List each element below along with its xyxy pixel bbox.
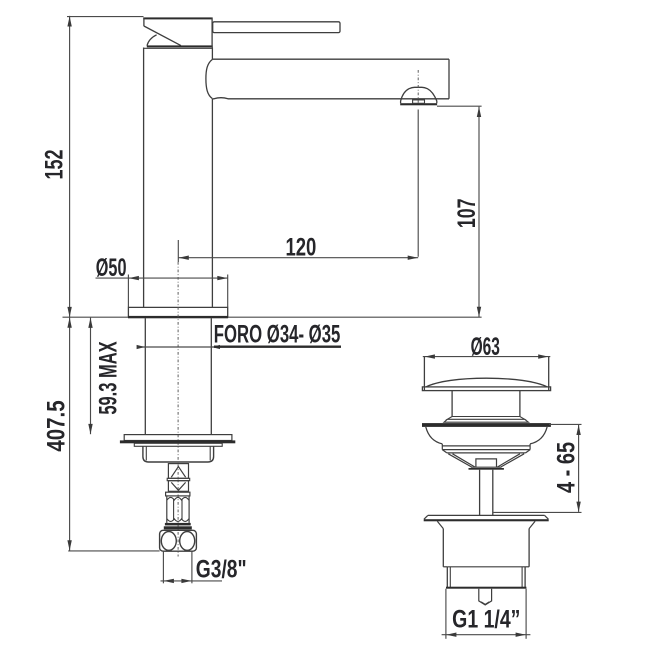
valve A caret xyxy=(171,467,185,478)
braided hose left edge xyxy=(166,496,168,523)
extension stub at faucet center xyxy=(177,240,179,262)
bell band line 3 xyxy=(447,452,526,454)
aerator bottom plate (bold) xyxy=(400,103,437,105)
drain cap dome arc xyxy=(426,378,547,387)
arrow left (Ø63) xyxy=(425,354,435,358)
plug tip cylinder xyxy=(479,589,492,605)
lower flange bevel left xyxy=(424,515,428,519)
arrow right (Ø50) xyxy=(217,276,227,280)
supply nut circle right xyxy=(180,532,195,551)
dimension line G1 1/4 xyxy=(442,634,531,636)
drain bell curve left xyxy=(426,427,443,444)
thread top line xyxy=(447,566,525,568)
bell band line 2 xyxy=(442,449,530,451)
deck extension line left xyxy=(63,316,129,318)
svg-text:59.3 MAX: 59.3 MAX xyxy=(95,341,122,414)
hose end collar (dark) xyxy=(165,523,191,526)
svg-text:107: 107 xyxy=(452,198,481,228)
thread bottom (bold) xyxy=(446,587,526,589)
svg-text:FORO Ø34- Ø35: FORO Ø34- Ø35 xyxy=(214,320,341,348)
extension line top (spout top level) xyxy=(67,16,144,18)
lower flange bold band xyxy=(424,519,549,521)
thread inner left xyxy=(449,567,451,588)
drain rod left xyxy=(479,470,481,516)
spout bottom line xyxy=(213,98,449,99)
main left dimension line (152 / 407.5) xyxy=(69,16,71,551)
barrel right xyxy=(528,529,530,567)
arrow right (G1 1/4) xyxy=(516,633,526,637)
plug tip inner xyxy=(481,602,489,605)
hose end collar 2 (dark) xyxy=(164,526,192,529)
svg-text:G1 1/4”: G1 1/4” xyxy=(452,605,520,633)
braid top scallops xyxy=(167,497,189,500)
thread outer left xyxy=(446,567,448,588)
dimension line G3/8 xyxy=(161,580,223,582)
drain bell curve right xyxy=(530,427,547,444)
aerator dome xyxy=(401,87,437,103)
supply nut block xyxy=(160,530,197,551)
drain top flange (bold band) xyxy=(422,423,551,427)
base flange outline xyxy=(128,307,227,317)
funnel inner right xyxy=(497,454,520,467)
barrel left xyxy=(442,529,444,567)
svg-text:4 - 65: 4 - 65 xyxy=(553,442,581,493)
arrow down at washer (59.3) xyxy=(88,424,92,434)
funnel base bold xyxy=(469,468,504,470)
svg-text:G3/8": G3/8" xyxy=(196,555,247,583)
fixing nut inner facet right xyxy=(209,446,211,460)
arrow left out (G3/8) xyxy=(164,579,174,583)
neck collar flare 1 xyxy=(447,417,524,420)
G1 extension right xyxy=(525,589,527,639)
extension stub flange left xyxy=(127,275,129,308)
drain cap side right / extension xyxy=(548,357,550,391)
handle cap left edge xyxy=(143,18,145,27)
neck collar flare 2 xyxy=(444,419,528,422)
handle cap top (bold) xyxy=(143,17,212,19)
body bevel left xyxy=(437,521,443,528)
drain neck right xyxy=(519,391,521,417)
aerator outlet notch xyxy=(413,100,425,103)
valve B vee xyxy=(171,482,185,490)
barrel ledge left xyxy=(443,566,447,568)
funnel inner left xyxy=(453,454,476,467)
supply nut circle left xyxy=(161,532,176,551)
arrow right (120) xyxy=(408,256,418,260)
arrow toward shank left (FORO) xyxy=(137,345,146,349)
faucet body top edge xyxy=(144,47,213,49)
aerator centerline (dashed) xyxy=(417,70,419,103)
spacer plate xyxy=(134,443,222,446)
handle cap diagonal (lever underside) xyxy=(144,26,181,46)
arrow up at top (152) xyxy=(67,16,71,26)
dimension line FORO xyxy=(138,346,215,348)
handle cap bottom (bold) xyxy=(147,45,213,47)
hose collar top xyxy=(166,492,190,496)
arrow up (4-65) xyxy=(576,425,580,435)
shank right edge xyxy=(210,318,212,434)
arrow down at deck (152) xyxy=(67,307,71,317)
G1 extension left xyxy=(445,589,447,639)
handle cap right edge xyxy=(211,18,213,48)
faucet centerline (dash-dot) xyxy=(177,262,179,557)
base flange bottom (bold) xyxy=(128,316,228,318)
funnel outer left xyxy=(448,454,472,467)
fixing nut inner facet left xyxy=(145,446,147,460)
bottom extension line to 407.5 xyxy=(68,550,159,552)
braid bottom scallops xyxy=(167,519,189,522)
valve section B xyxy=(168,481,188,492)
plug guide box xyxy=(476,459,497,467)
arrow left (G1 1/4) xyxy=(446,633,456,637)
spout right end xyxy=(448,59,450,99)
body bevel right xyxy=(529,521,535,528)
arrow down at bottom (407.5) xyxy=(67,540,71,550)
faucet body right edge upper xyxy=(211,48,213,60)
mounting washer bold band xyxy=(120,440,235,443)
drain cap rim xyxy=(422,387,550,391)
valve section A xyxy=(168,464,188,479)
bell band side right xyxy=(529,444,531,450)
divider band xyxy=(167,478,190,480)
braided hose inner line right xyxy=(181,500,183,520)
dimension line Ø50 xyxy=(96,277,228,279)
spout junction arc xyxy=(206,59,213,98)
thread outer right xyxy=(524,567,526,588)
spout top line xyxy=(212,58,449,60)
lower flange bevel right xyxy=(545,515,549,519)
svg-text:407.5: 407.5 xyxy=(42,400,70,452)
handle cap nose arc xyxy=(147,35,157,46)
lower flange top line xyxy=(428,514,545,516)
lever bar xyxy=(213,22,340,33)
bell bevel left xyxy=(442,450,447,453)
fixing nut xyxy=(143,446,214,462)
arrow down (4-65) xyxy=(576,502,580,512)
mounting washer plate xyxy=(124,435,232,441)
drain rod right xyxy=(492,470,494,516)
braided hose right edge xyxy=(188,496,190,523)
barrel ledge right xyxy=(525,566,529,568)
dimension line 120 xyxy=(178,257,418,259)
arrow up at deck (59.3) xyxy=(88,318,92,328)
G3/8 extension line left xyxy=(162,551,164,583)
arrow left (120) xyxy=(179,256,189,260)
dimension line Ø63 xyxy=(423,356,551,358)
funnel base line xyxy=(471,466,502,468)
extension stub flange right xyxy=(227,275,229,308)
svg-text:120: 120 xyxy=(285,233,316,261)
arrow toward shank right (FORO) xyxy=(212,345,221,349)
bell bevel right xyxy=(526,450,531,453)
arrow right (Ø63) xyxy=(538,354,548,358)
deck extension line right xyxy=(228,316,482,318)
arrow down (107) xyxy=(477,307,481,317)
drain neck left xyxy=(451,391,453,417)
drain cap side left / extension xyxy=(423,357,425,391)
dimension line 107 xyxy=(478,107,480,317)
svg-text:152: 152 xyxy=(40,149,69,179)
faucet body left edge xyxy=(143,48,145,308)
label FORO underline (bold) xyxy=(214,346,341,348)
braided hose inner line left xyxy=(173,500,175,520)
bell band side left xyxy=(441,444,443,450)
G3/8 extension line right xyxy=(191,551,193,583)
arrow up below deck (407.5) xyxy=(67,317,71,327)
arrow left (Ø50) xyxy=(129,276,139,280)
arrow up (107) xyxy=(477,107,481,117)
dimension line 59.3 MAX xyxy=(90,318,92,435)
4-65 extension top xyxy=(549,423,582,425)
faucet body right edge lower xyxy=(211,99,213,308)
bell band line 1 xyxy=(442,445,530,447)
extension line aerator bottom to 107 dim xyxy=(437,105,482,107)
funnel outer right xyxy=(501,454,524,467)
shank left edge xyxy=(144,318,146,434)
arrow right out (G3/8) xyxy=(181,579,191,583)
4-65 extension bottom xyxy=(494,511,582,513)
dimension line 4-65 xyxy=(578,425,580,512)
extension line from aerator center down to 120 dim xyxy=(417,110,419,257)
thread inner right xyxy=(521,567,523,588)
